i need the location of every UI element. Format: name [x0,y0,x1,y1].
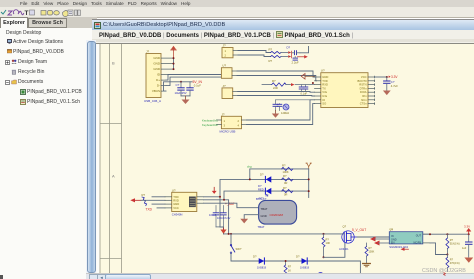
svg-text:TBAT: TBAT [261,206,268,210]
node pin2 [219,195,225,200]
resistor R11 [446,234,460,255]
power port arrow left below U5 [401,247,409,250]
svg-text:GND: GND [261,214,267,218]
svg-text:T: T [25,10,29,17]
svg-text:GND: GND [153,61,161,65]
ground bar below R-EN [363,263,371,266]
wire corner top [300,46,309,52]
wire U4 pin1 to net B / rail [204,196,224,233]
svg-text:AO3401: AO3401 [339,247,349,251]
svg-text:D-: D- [157,83,160,87]
wire VBUS 5V_IN [164,81,193,90]
U3 left pin stubs [315,77,321,104]
svg-text:J?: J? [223,83,227,87]
power port VCC (red arrow up) [171,45,177,57]
left panel [0,17,97,279]
ground BT1 [240,218,248,223]
svg-text:RSTN: RSTN [359,82,366,86]
resistor R8 vertical [284,260,292,275]
wire net B [220,179,309,196]
resistor R1 [269,47,282,53]
svg-text:GND: GND [153,67,161,71]
svg-text:0R: 0R [284,180,287,184]
node rail joints [228,232,325,234]
svg-text:10uF/25V: 10uF/25V [175,91,187,95]
resistor R3 on RXD line [262,79,291,90]
transistor Q1 PMOS [339,224,357,251]
svg-text:U3s: U3s [322,94,327,98]
horizontal scrollbar [86,273,474,279]
svg-text:KeyboardIn1: KeyboardIn1 [202,118,218,122]
node VBUS junction [180,80,182,82]
ground below crystal [272,110,279,117]
toolbar [0,7,474,18]
node junction mid bus [312,82,314,84]
svg-text:1N5819: 1N5819 [257,265,267,269]
wire D- [166,77,221,86]
svg-text:R?: R? [282,163,286,167]
svg-text:GND: GND [173,202,179,206]
ground below caps [182,95,190,103]
wire net A top pullup rail [250,168,309,179]
svg-text:RIn: RIn [362,94,367,98]
svg-text:1K: 1K [288,268,291,272]
svg-text:CH340N: CH340N [172,212,183,216]
svg-text:R?: R? [288,264,292,268]
svg-text:DTRn: DTRn [360,86,368,90]
resistor R6 [282,185,293,196]
svg-text:3.3V: 3.3V [464,224,470,228]
wire D+ [166,74,221,80]
svg-text:VCC: VCC [361,75,367,79]
svg-text:TXD: TXD [322,78,327,82]
watermark [422,268,474,277]
svg-text:U?: U? [172,188,176,192]
resistor R2 [269,55,282,63]
svg-text:1N5819: 1N5819 [300,265,310,269]
diode pair D-TVS [281,45,292,57]
svg-text:B: B [112,60,115,65]
svg-text:4.7uF: 4.7uF [391,84,398,88]
U3 right pin stubs [368,76,375,104]
svg-text:VBUS: VBUS [152,89,160,93]
diode D2 [258,184,271,194]
connector J1 USB [144,49,161,103]
svg-text:100K: 100K [369,250,375,253]
svg-text:NCn: NCn [361,97,367,101]
svg-text:BOOT0: BOOT0 [357,78,367,82]
svg-text:CTSn: CTSn [360,101,367,105]
svg-text:U?: U? [222,63,226,67]
resistor R5 [282,174,293,185]
svg-text:1uF: 1uF [462,247,467,250]
svg-text:D?: D? [260,172,264,176]
canvas white margin [97,44,474,273]
power port 3.3V up right [464,224,471,234]
svg-text:TBAT: TBAT [258,224,265,228]
capacitor C2 [187,81,201,95]
left panel tab strip [0,17,97,28]
capacitor C5 pair [299,84,308,95]
svg-text:12MHz: 12MHz [281,111,290,115]
capacitor C7 [213,205,219,226]
svg-text:D?: D? [296,254,300,258]
diode D3 [253,254,267,269]
svg-text:TXD: TXD [146,207,153,211]
svg-text:10K: 10K [326,241,331,245]
svg-text:VCC: VCC [173,205,179,209]
svg-text:R?: R? [272,79,276,83]
power fork symbol [306,163,312,169]
connector J3 [222,83,238,98]
diode D4 [296,254,310,269]
svg-text:GND: GND [322,75,328,79]
tree [0,29,86,113]
svg-text:2.2uF: 2.2uF [292,60,299,64]
svg-text:0R: 0R [284,192,287,196]
wire right bus of pullups [308,168,310,197]
svg-text:R?: R? [283,185,287,189]
node joints OUT [429,233,470,235]
capacitor C4 small [293,56,298,60]
pin stubs J1 [161,58,174,91]
power port GND arrow left at U3 pin1 [301,73,314,79]
capacitor C3 [292,50,301,64]
wire U4 pin2 +BAT [204,199,229,233]
svg-text:RXD: RXD [173,198,179,202]
svg-text:R?: R? [283,174,287,178]
svg-text:SGM2019-ADJ: SGM2019-ADJ [389,245,408,249]
document tabs row [92,30,474,44]
svg-text:SW?: SW? [236,247,242,251]
svg-text:R?: R? [269,47,273,51]
node VCC [386,76,388,78]
svg-text:EN: EN [391,241,395,244]
svg-text:CR2032M: CR2032M [270,212,284,216]
svg-text:5_V_OUT: 5_V_OUT [352,228,366,232]
svg-text:J?: J? [221,112,225,116]
wire cap bottoms [181,94,190,96]
vertical scrollbar strip [86,40,96,273]
power port 3.3V red [389,75,399,79]
wire GND bus [173,58,175,69]
svg-text:R?: R? [269,59,273,63]
IC U5 regulator [389,227,430,248]
resistor R4 [282,163,293,173]
svg-text:100nF/6.3V: 100nF/6.3V [217,216,231,220]
corner mark bottom-left [0,275,3,279]
svg-text:RED: RED [258,187,264,191]
wires into U4 [141,196,165,207]
svg-text:D?: D? [287,45,291,49]
wire U4 pin3 to BT1 [204,203,259,208]
svg-text:22R: 22R [273,85,278,89]
wire FB [430,242,447,254]
wire VBAT rail [224,232,342,234]
capacitor C8 [209,205,231,226]
ground below C6 [383,90,391,95]
svg-text:USB_C06_A: USB_C06_A [144,99,161,103]
wire switch drop [230,233,232,244]
schematic canvas [97,44,474,273]
power port arrow right 2 [291,83,315,86]
svg-text:DIOA: DIOA [360,90,367,94]
svg-text:J?: J? [223,44,227,48]
power port arrow left (UART) [130,198,141,202]
power port down into rail [220,228,226,234]
power port 5V down arrow (red) [212,187,217,194]
diode D1 [260,172,271,182]
wire U2 to U3 pins [237,71,317,125]
node junctions GND [173,57,175,70]
capacitor C6 [384,77,399,90]
svg-text:N: N [266,192,269,197]
svg-text:TXD: TXD [173,194,178,198]
capacitor C9 [462,234,472,257]
svg-text:R?: R? [326,237,330,241]
svg-text:TX: TX [322,86,326,90]
resistor R-EN vertical [365,243,375,263]
svg-text:MICRO USB: MICRO USB [220,129,236,133]
IC U3 MCU [321,68,368,107]
svg-text:D+: D+ [156,78,160,82]
switch SW1 [230,244,242,253]
power ports left arrows (U5) [370,236,389,245]
svg-text:100K: 100K [283,170,289,174]
svg-text:+_BAT: +_BAT [225,202,235,206]
svg-text:RXD: RXD [322,82,328,86]
wire net C [224,191,309,200]
svg-text:V3s: V3s [322,90,327,94]
resistor R9 vertical [322,233,330,257]
svg-text:51K(1%): 51K(1%) [450,242,460,245]
wire Q1 to U5 [357,236,389,238]
svg-text:A: A [112,173,115,178]
node joints pullup bus [249,178,310,192]
svg-text:OUT: OUT [416,234,422,237]
wire VCC 3V3 [375,76,387,78]
component D-ESD U2 [221,63,237,78]
wire OUT 3V3 [423,233,469,235]
svg-text:IO: IO [322,97,325,101]
document window title bar [92,19,474,30]
svg-text:BT?: BT? [259,196,265,200]
svg-text:U?: U? [321,68,325,72]
svg-text:C?: C? [176,82,180,86]
menu bar [0,0,474,8]
svg-text:Q?: Q? [343,224,347,228]
power port arrow right [298,55,308,58]
svg-text:47K(1%): 47K(1%) [450,262,460,265]
svg-text:D?: D? [253,254,257,258]
svg-text:3.3V: 3.3V [391,75,398,79]
svg-text:D?: D? [258,184,262,188]
connector J4 keyboard [216,112,246,133]
sheet [100,44,474,273]
wire gate net [324,243,345,257]
connector J2 [222,43,238,57]
resistor R12 [446,254,460,271]
wire J2 to resistors [238,50,271,56]
IC U4 CH340 [165,188,204,216]
capacitor C1 [175,81,187,95]
svg-text:0.1uF: 0.1uF [194,83,201,87]
svg-text:J?: J? [146,49,150,53]
transistor Q2 circle bottom [317,272,325,279]
wire BT1 GND [244,214,258,218]
ground big right [464,257,473,262]
battery BT1 holder [258,192,297,228]
svg-text:SO: SO [322,101,326,105]
svg-text:chg: chg [247,164,252,168]
crystal Y1 [273,99,310,114]
resistor R7 diagonal [142,193,147,206]
svg-text:100nF: 100nF [209,212,217,216]
svg-text:0.1uF: 0.1uF [301,91,308,95]
svg-text:KeyboardIn2: KeyboardIn2 [202,122,218,126]
svg-text:R?: R? [142,193,146,197]
svg-text:NC/FB: NC/FB [414,241,422,244]
svg-text:GND: GND [153,56,161,60]
wire GND bottom rail [231,253,360,273]
